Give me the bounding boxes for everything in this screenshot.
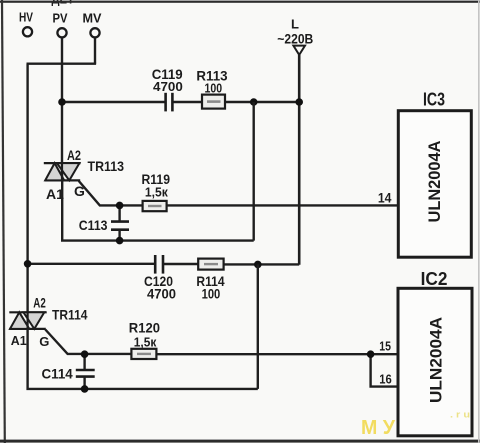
- svg-text:C113: C113: [79, 217, 108, 233]
- capacitor C120 plates: [155, 255, 163, 274]
- capacitor C114 stub and plates: [83, 354, 85, 370]
- triac TR113: [44, 163, 81, 180]
- wire left rail vertical to TR114 A2: [26, 64, 28, 313]
- svg-text:. r u: . r u: [450, 409, 470, 420]
- svg-text:4700: 4700: [153, 79, 183, 94]
- svg-text:IC2: IC2: [421, 269, 448, 289]
- wire lamp vertical drop: [298, 55, 301, 265]
- svg-text:HV: HV: [19, 10, 33, 25]
- node dot PV-snubber junction: [58, 98, 66, 106]
- wire MV horizontal to left rail: [27, 63, 97, 65]
- svg-text:A2: A2: [67, 147, 81, 163]
- wire R119 to IC3 pin 14: [167, 204, 399, 206]
- svg-text:G: G: [39, 334, 49, 349]
- terminal MV circle: [90, 28, 99, 37]
- border frame top: [0, 1, 480, 3]
- svg-text:C114: C114: [42, 366, 73, 382]
- resistor R113 body: [202, 95, 225, 109]
- wire TR113 gate diagonal: [79, 181, 143, 205]
- svg-text:ULN2004A: ULN2004A: [426, 140, 444, 222]
- node dot C114-A1 junction: [81, 385, 89, 393]
- svg-text:L: L: [291, 17, 299, 32]
- wire riser1 from A1 line up to snubber node: [252, 102, 254, 241]
- node dot gate1-C113 junction: [116, 202, 124, 210]
- resistor R120 body: [131, 349, 156, 359]
- svg-text:14: 14: [378, 191, 392, 206]
- svg-text:ULN2004A: ULN2004A: [428, 317, 446, 403]
- svg-text:TR113: TR113: [88, 158, 125, 174]
- border frame bottom: [0, 440, 480, 443]
- node dot gate2-C114 junction: [81, 350, 89, 358]
- svg-text:R120: R120: [129, 320, 160, 336]
- svg-text:~220В: ~220В: [277, 31, 313, 46]
- svg-text:A1: A1: [11, 333, 27, 348]
- svg-text:IC3: IC3: [423, 89, 445, 109]
- svg-text:100: 100: [202, 286, 221, 302]
- wire R113 to lamp rail: [225, 101, 299, 103]
- node dot riser2 junction: [254, 261, 262, 269]
- wire R120 to IC2 pin 15: [156, 353, 398, 355]
- wire riser2 from A1 line up to snubber2 node: [257, 264, 259, 389]
- capacitor C119 plates: [166, 93, 173, 112]
- terminal HV circle: [23, 27, 32, 36]
- wire PV vertical drop to TR113 A2: [61, 38, 63, 181]
- svg-text:MV: MV: [83, 11, 102, 26]
- resistor R119 body: [143, 201, 167, 211]
- node dot pin15 junction: [367, 350, 375, 358]
- node dot snubber1 output junction: [250, 98, 258, 106]
- svg-text:15: 15: [379, 339, 391, 353]
- capacitor C113 stub and plates: [118, 205, 120, 221]
- border frame right: [478, 0, 480, 443]
- wire snubber1: PV node to C119: [62, 101, 166, 103]
- triac TR114: [9, 312, 46, 329]
- wire TR113 A1 down and right: [62, 181, 254, 241]
- wire MV vertical drop: [94, 38, 96, 64]
- wire C120 to R114: [163, 263, 198, 265]
- wire R114 to lamp rail elbow: [224, 263, 300, 265]
- op IC3 box: [398, 111, 471, 258]
- svg-text:100: 100: [205, 81, 223, 96]
- wire C119 to R113: [172, 101, 202, 103]
- wire TR114 A1 down and right: [28, 329, 258, 389]
- terminal PV circle: [57, 28, 66, 37]
- node dot C113-A1 junction: [116, 237, 124, 245]
- svg-text:16: 16: [379, 372, 392, 386]
- node dot MV-snubber junction: [24, 260, 32, 268]
- svg-text:М У: М У: [361, 417, 396, 439]
- svg-text:PV: PV: [53, 11, 68, 26]
- svg-text:4700: 4700: [147, 286, 176, 302]
- resistor R114 body: [198, 259, 223, 270]
- op IC2 box: [398, 288, 472, 436]
- lamp symbol triangle: [293, 46, 305, 55]
- svg-text:1,5к: 1,5к: [145, 184, 168, 199]
- wire pin16 jumper: [371, 354, 399, 386]
- svg-text:A2: A2: [33, 296, 46, 311]
- svg-text:TR114: TR114: [52, 307, 88, 323]
- node dot lamp rail junction: [295, 98, 303, 106]
- wire snubber2: MV rail to C120: [28, 263, 156, 265]
- border frame left: [2, 0, 5, 443]
- svg-text:1,5к: 1,5к: [134, 334, 157, 349]
- wire TR114 gate diagonal: [45, 330, 131, 354]
